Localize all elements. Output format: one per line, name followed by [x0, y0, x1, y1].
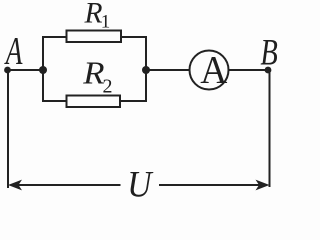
node B — [260, 32, 277, 74]
wire — [229, 69, 268, 71]
svg-text:A: A — [4, 30, 23, 73]
wire — [120, 100, 147, 102]
svg-text:U: U — [127, 163, 154, 200]
node A — [4, 30, 23, 73]
wire — [42, 70, 44, 102]
junction — [39, 66, 47, 74]
resistor R2 — [67, 96, 121, 108]
svg-text:B: B — [260, 32, 277, 74]
wire — [42, 36, 67, 38]
wire — [145, 36, 147, 70]
label R2 — [82, 56, 112, 98]
wire — [7, 70, 9, 188]
svg-text:2: 2 — [103, 75, 113, 97]
junction — [142, 66, 150, 74]
svg-text:R: R — [84, 0, 103, 29]
voltage arrow — [159, 180, 270, 191]
wire — [42, 100, 67, 102]
svg-text:1: 1 — [101, 12, 111, 33]
wire — [42, 36, 44, 71]
svg-text:R: R — [82, 56, 104, 91]
wire — [145, 70, 147, 102]
wire — [121, 36, 147, 38]
ammeter A — [190, 49, 229, 92]
wire — [146, 69, 189, 71]
resistor R1 — [67, 31, 122, 43]
voltage arrow — [8, 180, 121, 191]
wire — [269, 70, 271, 187]
label R1 — [84, 0, 111, 33]
wire — [8, 69, 44, 71]
svg-text:A: A — [200, 49, 227, 92]
